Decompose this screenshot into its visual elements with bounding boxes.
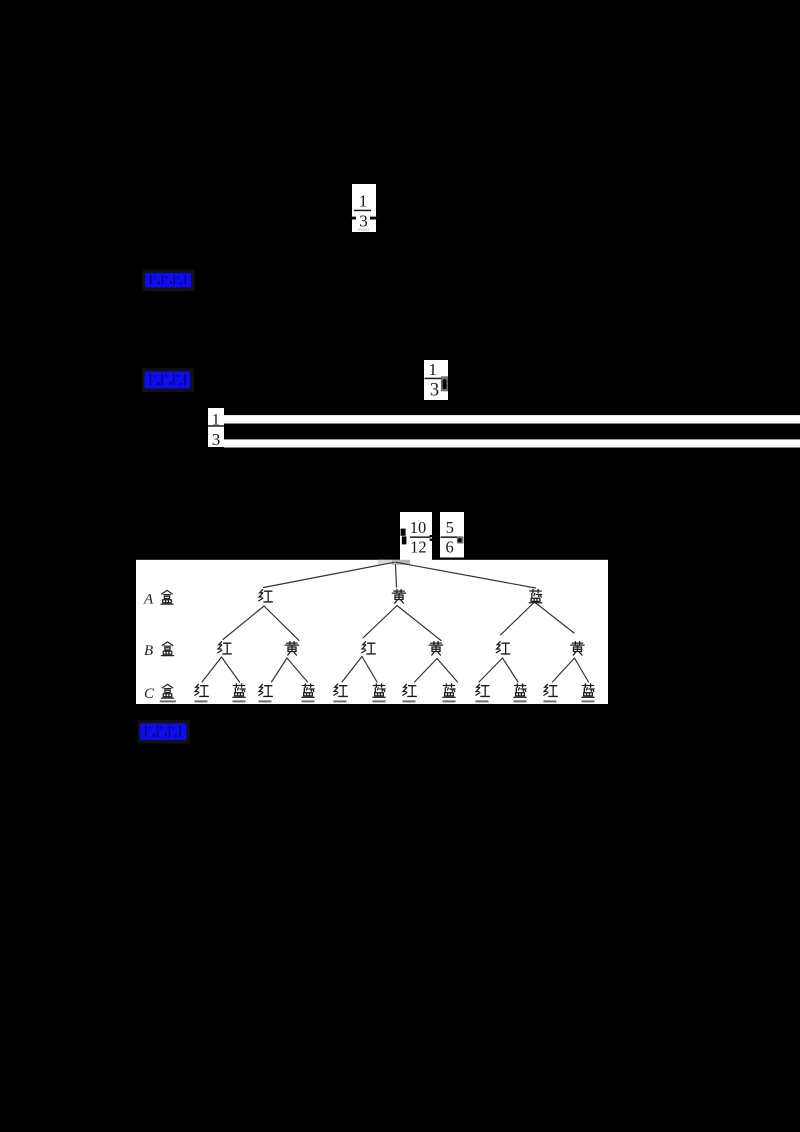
root line to blue: [396, 562, 536, 588]
node C4-blue: [302, 684, 315, 697]
node A-red: [259, 590, 272, 602]
root line to yellow: [396, 565, 397, 587]
svg-text:3: 3: [212, 430, 221, 449]
svg-text:B: B: [144, 643, 153, 659]
svg-text:1: 1: [359, 192, 368, 211]
glyph box (B row): [162, 642, 174, 656]
glyph box (C row): [162, 684, 174, 698]
node A-blue: [529, 589, 542, 602]
svg-text:10: 10: [410, 518, 427, 537]
node B1-red: [218, 642, 231, 654]
gray artifact + comma: [441, 376, 448, 391]
white background of tree image: [136, 560, 608, 704]
svg-text:12: 12: [410, 538, 427, 557]
node C2-blue: [233, 684, 246, 697]
svg-text:C: C: [144, 686, 155, 702]
root line to red: [264, 562, 395, 587]
svg-text:6: 6: [445, 538, 453, 557]
node C11-red: [544, 684, 557, 696]
node C12-blue: [582, 684, 595, 697]
faint smudge: [358, 228, 369, 231]
gray smudge near apex: [378, 560, 391, 565]
svg-text:3: 3: [430, 380, 439, 400]
node B2-yellow: [285, 642, 298, 656]
equals sign: [430, 535, 442, 537]
black character fragment at left edge: [401, 529, 406, 536]
ghost dashes under C row: [160, 700, 176, 702]
A yellow V: [363, 606, 397, 639]
B4 V: [415, 659, 438, 683]
long white strip bottom: [224, 439, 800, 447]
A blue V: [501, 602, 535, 635]
right text dash: [370, 217, 380, 220]
svg-text:5: 5: [446, 518, 454, 537]
B2 V: [272, 658, 288, 682]
node C5-red: [334, 684, 347, 696]
B6 V: [553, 658, 575, 682]
gray artifact + period: [457, 537, 464, 544]
node C8-blue: [443, 684, 456, 697]
node C6-blue: [373, 684, 386, 697]
B5 V: [479, 658, 503, 682]
node B3-red: [362, 642, 375, 654]
node B6-yellow: [571, 642, 584, 656]
white box: [352, 184, 376, 232]
A red V: [223, 606, 264, 640]
B1 V: [202, 657, 222, 682]
svg-text:1: 1: [429, 360, 438, 379]
node C7-red: [403, 684, 416, 696]
node C3-red: [259, 684, 272, 696]
node B4-yellow: [429, 642, 442, 656]
node C1-red: [195, 684, 208, 696]
svg-text:A: A: [143, 592, 154, 608]
node B5-red: [496, 642, 509, 654]
left text dash: [349, 217, 356, 220]
svg-text:3: 3: [359, 212, 368, 231]
fraction bar: [354, 210, 371, 212]
node C10-blue: [514, 684, 527, 697]
node C9-red: [476, 684, 489, 696]
node A-yellow: [392, 590, 405, 604]
B3 V: [342, 657, 362, 683]
long white strip top: [224, 415, 800, 423]
glyph box (A row): [161, 590, 173, 604]
